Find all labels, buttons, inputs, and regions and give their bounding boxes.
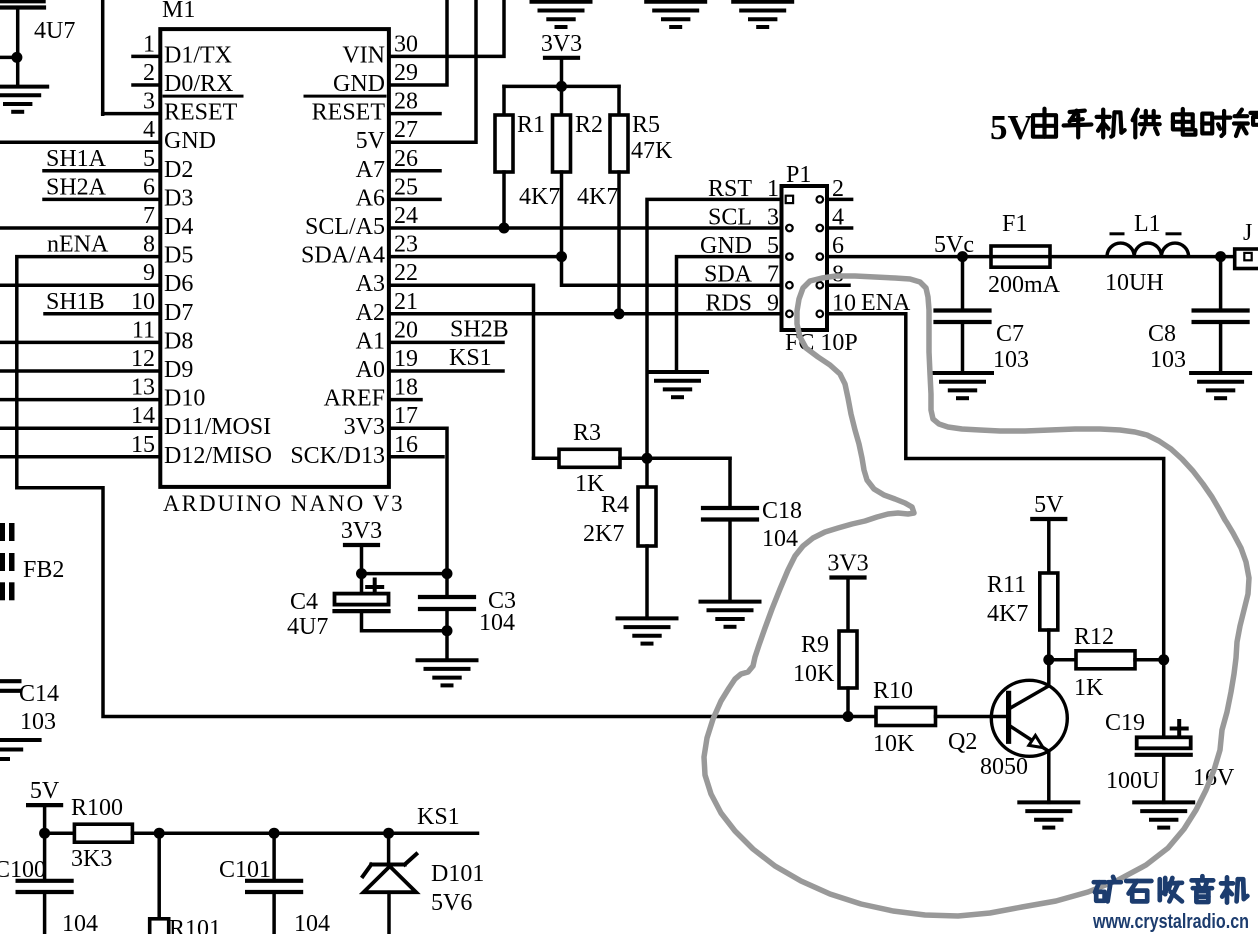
svg-text:13: 13 <box>131 375 155 401</box>
svg-text:104: 104 <box>62 911 98 934</box>
svg-text:R4: R4 <box>601 492 629 518</box>
svg-text:15: 15 <box>131 432 155 458</box>
svg-text:8050: 8050 <box>980 754 1028 780</box>
svg-text:10: 10 <box>131 289 155 315</box>
svg-text:2K7: 2K7 <box>583 521 624 547</box>
svg-text:D0/RX: D0/RX <box>164 71 233 97</box>
svg-text:3V3: 3V3 <box>344 414 385 440</box>
svg-text:A1: A1 <box>356 328 385 354</box>
svg-text:R2: R2 <box>575 112 603 138</box>
svg-text:D11/MOSI: D11/MOSI <box>164 414 271 440</box>
svg-text:R11: R11 <box>987 572 1026 598</box>
svg-text:A7: A7 <box>356 157 385 183</box>
svg-text:C7: C7 <box>996 321 1024 347</box>
svg-text:SH2A: SH2A <box>46 174 107 200</box>
svg-text:D4: D4 <box>164 214 193 240</box>
svg-text:9: 9 <box>143 260 155 286</box>
svg-text:J: J <box>1243 220 1252 246</box>
svg-text:5V6: 5V6 <box>431 890 472 916</box>
svg-text:23: 23 <box>394 232 418 258</box>
svg-text:nENA: nENA <box>47 232 109 258</box>
svg-text:RESET: RESET <box>312 100 386 126</box>
svg-text:5V: 5V <box>990 108 1033 147</box>
svg-text:D7: D7 <box>164 300 193 326</box>
svg-text:4: 4 <box>143 117 155 143</box>
svg-text:SH1A: SH1A <box>46 146 107 172</box>
svg-text:SH2B: SH2B <box>450 316 509 342</box>
svg-text:4U7: 4U7 <box>287 614 328 640</box>
svg-text:26: 26 <box>394 146 418 172</box>
svg-text:3K3: 3K3 <box>71 846 112 872</box>
svg-text:6: 6 <box>143 174 155 200</box>
svg-text:D10: D10 <box>164 386 205 412</box>
svg-text:21: 21 <box>394 289 418 315</box>
svg-text:P1: P1 <box>786 162 811 188</box>
svg-text:D1/TX: D1/TX <box>164 42 232 68</box>
svg-text:19: 19 <box>394 346 418 372</box>
svg-text:ENA: ENA <box>861 290 911 316</box>
svg-text:C18: C18 <box>762 498 802 524</box>
svg-text:D5: D5 <box>164 243 193 269</box>
svg-text:103: 103 <box>993 347 1029 373</box>
svg-text:3V3: 3V3 <box>541 31 582 57</box>
svg-text:103: 103 <box>1150 347 1186 373</box>
svg-text:C101: C101 <box>219 857 271 883</box>
svg-text:100U: 100U <box>1106 768 1159 794</box>
svg-text:C14: C14 <box>19 681 59 707</box>
svg-text:25: 25 <box>394 174 418 200</box>
svg-text:R5: R5 <box>632 112 660 138</box>
svg-text:3: 3 <box>143 89 155 115</box>
svg-text:SH1B: SH1B <box>46 289 105 315</box>
svg-text:27: 27 <box>394 117 418 143</box>
svg-text:A2: A2 <box>356 300 385 326</box>
svg-text:4U7: 4U7 <box>34 18 75 44</box>
svg-text:4K7: 4K7 <box>987 601 1028 627</box>
svg-text:1: 1 <box>143 31 155 57</box>
svg-text:R101: R101 <box>169 916 221 934</box>
svg-text:104: 104 <box>762 526 798 552</box>
svg-text:16: 16 <box>394 432 418 458</box>
svg-text:C8: C8 <box>1148 321 1176 347</box>
svg-text:10K: 10K <box>793 661 835 687</box>
svg-text:2: 2 <box>143 60 155 86</box>
svg-text:RDS: RDS <box>705 290 752 316</box>
svg-text:3V3: 3V3 <box>827 551 868 577</box>
svg-text:A6: A6 <box>356 185 385 211</box>
svg-text:24: 24 <box>394 203 418 229</box>
svg-text:GND: GND <box>333 71 385 97</box>
svg-text:5V: 5V <box>1034 492 1064 518</box>
svg-text:R9: R9 <box>801 632 829 658</box>
svg-text:10K: 10K <box>873 731 915 757</box>
svg-text:KS1: KS1 <box>417 804 460 830</box>
svg-text:C19: C19 <box>1105 710 1145 736</box>
svg-text:KS1: KS1 <box>449 345 492 371</box>
svg-text:1K: 1K <box>1074 675 1104 701</box>
svg-text:R10: R10 <box>873 678 913 704</box>
svg-text:17: 17 <box>394 403 418 429</box>
svg-text:20: 20 <box>394 317 418 343</box>
svg-text:D6: D6 <box>164 271 193 297</box>
svg-text:FB2: FB2 <box>23 557 64 583</box>
svg-text:5Vc: 5Vc <box>934 232 974 258</box>
svg-text:29: 29 <box>394 60 418 86</box>
svg-text:14: 14 <box>131 403 155 429</box>
svg-text:28: 28 <box>394 89 418 115</box>
svg-text:R3: R3 <box>573 420 601 446</box>
svg-text:C100: C100 <box>0 857 46 883</box>
svg-text:R100: R100 <box>71 795 123 821</box>
svg-text:11: 11 <box>132 317 155 343</box>
svg-text:103: 103 <box>20 709 56 735</box>
svg-text:AREF: AREF <box>324 386 385 412</box>
svg-text:SDA: SDA <box>704 262 753 288</box>
svg-text:200mA: 200mA <box>988 272 1061 298</box>
svg-text:5: 5 <box>143 146 155 172</box>
svg-text:3V3: 3V3 <box>341 518 382 544</box>
svg-text:A0: A0 <box>356 357 385 383</box>
svg-text:30: 30 <box>394 31 418 57</box>
svg-text:D2: D2 <box>164 157 193 183</box>
svg-text:ARDUINO NANO V3: ARDUINO NANO V3 <box>163 491 405 516</box>
svg-text:104: 104 <box>294 911 330 934</box>
svg-text:D9: D9 <box>164 357 193 383</box>
svg-text:A3: A3 <box>356 271 385 297</box>
svg-text:VIN: VIN <box>342 42 385 68</box>
svg-text:SCL: SCL <box>708 205 752 231</box>
svg-text:SDA/A4: SDA/A4 <box>301 243 385 269</box>
svg-text:7: 7 <box>143 203 155 229</box>
svg-text:R1: R1 <box>517 112 545 138</box>
svg-text:F1: F1 <box>1002 211 1027 237</box>
svg-text:22: 22 <box>394 260 418 286</box>
svg-text:SCL/A5: SCL/A5 <box>305 214 385 240</box>
svg-text:3: 3 <box>767 205 779 231</box>
svg-text:104: 104 <box>479 610 515 636</box>
svg-text:8: 8 <box>143 232 155 258</box>
svg-text:www.crystalradio.cn: www.crystalradio.cn <box>1092 911 1249 933</box>
svg-text:C4: C4 <box>290 589 318 615</box>
svg-text:5V: 5V <box>30 778 60 804</box>
svg-text:RESET: RESET <box>164 100 238 126</box>
svg-text:R12: R12 <box>1074 624 1114 650</box>
svg-text:L1: L1 <box>1134 211 1161 237</box>
svg-text:D12/MISO: D12/MISO <box>164 443 272 469</box>
svg-text:Q2: Q2 <box>948 729 977 755</box>
svg-text:SCK/D13: SCK/D13 <box>290 443 385 469</box>
svg-text:GND: GND <box>164 128 216 154</box>
svg-text:D3: D3 <box>164 185 193 211</box>
svg-text:7: 7 <box>767 262 779 288</box>
svg-text:4K7: 4K7 <box>519 184 560 210</box>
svg-text:9: 9 <box>767 290 779 316</box>
svg-text:D8: D8 <box>164 328 193 354</box>
svg-text:10UH: 10UH <box>1105 270 1164 296</box>
svg-text:5V: 5V <box>356 128 386 154</box>
svg-text:M1: M1 <box>162 0 195 23</box>
svg-text:FC 10P: FC 10P <box>785 330 858 356</box>
svg-text:12: 12 <box>131 346 155 372</box>
svg-text:18: 18 <box>394 375 418 401</box>
svg-text:4K7: 4K7 <box>577 184 618 210</box>
svg-text:D101: D101 <box>431 861 484 887</box>
svg-text:47K: 47K <box>631 138 673 164</box>
